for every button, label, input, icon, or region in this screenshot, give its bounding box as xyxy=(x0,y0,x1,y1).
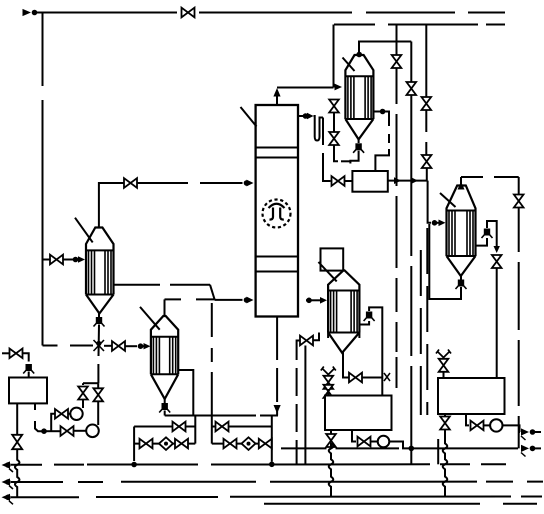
P3 discharge to product arrow xyxy=(389,442,518,449)
trap station 2 steam trap xyxy=(242,437,256,450)
junction dot station 1 on header A xyxy=(131,462,137,468)
evaporator EA bottom cone xyxy=(86,295,114,314)
transfer line tee to column inlet xyxy=(215,299,243,301)
evaporator E1 top tube sheet xyxy=(345,75,373,77)
mixing cross dot at EA bottoms xyxy=(96,341,101,346)
product line tail lower xyxy=(534,447,541,449)
P2 discharge riser lower xyxy=(97,402,99,426)
slash mark on evaporator E2 xyxy=(318,262,336,281)
valve V2 on P2 discharge xyxy=(93,388,103,401)
E2 right side loop with control valve xyxy=(359,321,369,325)
E2 left drain stub xyxy=(313,333,319,341)
cross ticks at EA bottoms junction xyxy=(94,340,105,351)
TM drain line to pump P3 xyxy=(371,441,378,443)
column tray line 1 xyxy=(256,147,298,149)
column bottoms pipe xyxy=(276,317,278,403)
valve on heater M2 feed xyxy=(332,176,345,186)
pump P2 xyxy=(86,425,99,438)
evaporator E3 bottom tube sheet xyxy=(447,255,476,257)
tick mark header A xyxy=(9,469,13,473)
suction manifold line xyxy=(46,430,61,432)
arrow into column at y183 xyxy=(247,180,254,187)
trap station 2 outlet valve xyxy=(259,439,272,449)
pump P4 xyxy=(490,419,502,431)
valve V396 xyxy=(392,55,402,68)
second arrowhead on M2 outlet xyxy=(411,177,418,184)
column symbol glyph arch xyxy=(269,204,285,208)
slash mark on column top xyxy=(241,107,257,127)
TR feed drop to tank xyxy=(496,269,498,379)
trap station 2 left riser xyxy=(211,303,213,444)
E2 drain dashed drop xyxy=(296,344,298,464)
bottom header C xyxy=(11,496,542,499)
column side outlet dot xyxy=(303,113,309,119)
valve on x519 line xyxy=(514,195,524,208)
junction dot product line upper xyxy=(530,429,536,435)
tank TL xyxy=(9,378,47,404)
heater M2 body xyxy=(352,171,387,192)
bottom header C left arrow xyxy=(2,494,11,501)
E2 bottoms line xyxy=(342,353,349,378)
trap station 1 bypass valve xyxy=(173,422,186,432)
E3 overhead corner down at x519 xyxy=(518,177,520,195)
overhead riser to vapour header xyxy=(333,25,335,88)
E1 right side loop xyxy=(373,112,389,172)
valve on EA vapour line xyxy=(124,178,137,188)
E1 bottoms control valve xyxy=(355,143,361,150)
EB bottoms control valve xyxy=(162,403,168,410)
steam header line top xyxy=(35,12,505,14)
pump P3 xyxy=(378,436,390,448)
tick mark header B xyxy=(9,486,13,490)
column symbol glyph right leg xyxy=(280,208,284,220)
column shell xyxy=(256,105,298,317)
evaporator EB shell xyxy=(151,316,178,374)
TM inlet valve upper xyxy=(324,376,334,389)
evaporator E3 shell xyxy=(447,186,476,257)
product line left dashed extension xyxy=(281,447,399,449)
TR drain stub xyxy=(466,414,469,425)
E2 lower flange xyxy=(328,333,359,339)
trap station 1 steam trap xyxy=(159,437,173,450)
reflux valve chain lower valve xyxy=(329,132,339,145)
TL feed elbow xyxy=(23,353,29,361)
junction dot before column inlet y300 xyxy=(244,297,250,303)
evaporator E1 tubes xyxy=(348,76,371,119)
valve on TM left drain xyxy=(326,434,336,447)
valve on TR feed xyxy=(492,255,502,268)
E3 bottoms control valve xyxy=(458,280,464,287)
evaporator EB tubes xyxy=(153,337,175,375)
riser x396 long drop xyxy=(396,69,398,389)
junction dot station 2 on header A xyxy=(269,462,275,468)
P1 discharge riser lower xyxy=(82,400,84,408)
tick mark product line lower xyxy=(521,453,526,457)
product arrow right upper xyxy=(521,428,529,435)
trap station 1 left edge xyxy=(133,427,135,462)
tank TL feed line xyxy=(2,352,10,354)
junction dot header B xyxy=(5,479,11,485)
evaporator EB top tube sheet xyxy=(151,336,178,338)
left main downcomer from header xyxy=(42,13,44,346)
pump P1 discharge riser xyxy=(82,383,84,385)
column side outlet arrow xyxy=(307,113,314,119)
E2 bottoms to tank TM junction xyxy=(362,377,382,379)
trap station 1 bypass rail xyxy=(134,426,195,428)
Y-actuator control valve on tank TM inlet xyxy=(321,367,336,375)
tick mark header C xyxy=(9,501,13,505)
EA vapour line to column xyxy=(137,182,243,184)
trap station 2 bypass valve xyxy=(216,422,229,432)
control valve blob on TL feed xyxy=(26,364,32,371)
riser x411 lower drop xyxy=(410,181,412,465)
feed line into evaporator EA xyxy=(44,259,74,261)
trap station 1 inlet valve xyxy=(140,439,153,449)
EB right side outlet down xyxy=(178,370,193,416)
bottom header A left arrow xyxy=(2,461,11,468)
dashed drop x421 xyxy=(420,250,422,415)
junction dot on E2 feed xyxy=(306,298,312,304)
valve on steam header xyxy=(182,8,195,18)
junction dot product line lower xyxy=(530,446,536,452)
junction dot on suction manifold xyxy=(41,428,47,434)
column symbol glyph left leg xyxy=(270,208,274,220)
evaporator E3 top tube sheet xyxy=(447,210,476,212)
valve on EA feed line xyxy=(50,255,63,265)
evaporator E1 bottom tube sheet xyxy=(345,118,373,120)
product line tail upper xyxy=(534,431,541,433)
column overhead line to risers xyxy=(277,87,334,89)
junction dot on EA feed xyxy=(73,257,79,263)
trap station 2 bottom rail xyxy=(212,443,272,445)
TR drain line to pump P4 xyxy=(484,424,491,426)
barometric seal U-tube xyxy=(314,116,324,141)
arrow into evaporator E2 xyxy=(320,297,327,304)
evaporator E1 bottom cone xyxy=(345,119,373,139)
TL drain hop line to bottom header xyxy=(15,449,20,497)
bottom header B xyxy=(11,481,543,483)
arrow down on column bottoms xyxy=(274,405,281,414)
E1 right side outlet dot xyxy=(380,109,386,115)
valve on TM drain xyxy=(358,437,371,447)
TM inlet valve lower xyxy=(324,385,334,398)
valve V1 on P1 discharge xyxy=(78,387,88,400)
TR left drain xyxy=(444,414,446,417)
pump P2 discharge riser xyxy=(97,383,99,388)
condensate collection line y415 xyxy=(165,415,278,417)
slash mark on evaporator E1 xyxy=(343,58,355,72)
seal downcomer to heater feed xyxy=(323,118,331,182)
vapour header line second xyxy=(334,24,505,26)
evaporator E1 shell xyxy=(345,55,373,119)
trap station 2 bypass rail xyxy=(212,426,272,428)
junction dot before column inlet xyxy=(244,180,250,186)
evaporator E2 shell xyxy=(328,270,359,332)
arrowhead on M2 outlet xyxy=(394,177,401,184)
inlet arrow into steam header xyxy=(23,9,32,16)
slash mark on evaporator E3 xyxy=(440,193,456,207)
EA vapour riser to column feed line xyxy=(99,183,124,227)
valve V427 upper xyxy=(422,97,432,110)
valve on P2 suction xyxy=(61,426,74,436)
evaporator EA bottom tube sheet xyxy=(86,294,114,296)
bottoms transfer line toward evaporator EB xyxy=(104,345,112,347)
P1 suction line xyxy=(68,413,70,415)
E1 bottoms elbow xyxy=(350,151,358,164)
evaporator E3 bottom cone xyxy=(447,256,476,276)
EA vapour outlet right to tee xyxy=(114,284,211,286)
TM left drain hop line xyxy=(329,443,334,496)
jog down to transfer tee xyxy=(210,285,215,300)
dot at E1 apex xyxy=(356,52,362,58)
P2 suction line xyxy=(74,430,87,432)
arrow into evaporator EA xyxy=(78,256,85,262)
column tray line 3 xyxy=(256,256,298,258)
Y-actuator control valve on TR inlet xyxy=(436,350,451,358)
x519 dashed drop to product line xyxy=(518,208,520,448)
tick mark product line upper xyxy=(521,436,526,440)
valve on E2 bottoms xyxy=(349,373,362,383)
E1 top line drop at x411 xyxy=(410,42,412,82)
tank TL outlet stub xyxy=(35,404,42,431)
column symbol circle xyxy=(263,200,291,228)
E1 vapour riser and top line xyxy=(359,42,411,55)
bottom header A xyxy=(11,463,506,466)
dashed drop x427 lower xyxy=(426,228,428,415)
TM drain stub xyxy=(352,430,356,442)
evaporator EB bottom cone xyxy=(151,374,178,399)
heater M2 feed stub xyxy=(345,180,353,182)
TL feed stub into tank xyxy=(28,372,30,378)
junction dot x411 on product line xyxy=(409,446,415,452)
evaporator E2 bottom cone xyxy=(328,333,359,353)
vapour header drop at x426 xyxy=(425,25,427,97)
arrow up at E3 apex xyxy=(458,182,465,190)
junction dot header C xyxy=(5,495,11,501)
column tray line 4 xyxy=(256,271,298,273)
evaporator E2 bottom tube sheet xyxy=(328,332,359,334)
evaporator E3 tubes xyxy=(449,211,473,257)
TM inlet drop xyxy=(381,378,383,396)
slash mark on evaporator EB xyxy=(140,307,160,330)
TR feed dashed line xyxy=(496,230,498,247)
trap station 1 riser xyxy=(194,416,196,444)
arrow into evaporator EB xyxy=(144,343,151,349)
trap station 2 inlet valve xyxy=(224,439,237,449)
trap station 2 right edge xyxy=(271,416,273,462)
trap station 1 outlet valve xyxy=(175,439,188,449)
bottom header B left arrow xyxy=(2,478,11,485)
M2 outlet elbow down to E3 feed xyxy=(428,181,431,223)
evaporator EA top tube sheet xyxy=(86,249,114,251)
P4 discharge to product arrow upper xyxy=(503,425,521,432)
junction dot on E3 feed xyxy=(432,220,438,226)
heater M2 outlet line xyxy=(388,180,428,182)
evaporator EA shell xyxy=(86,228,114,295)
column tray line 2 xyxy=(256,157,298,159)
valve V411 xyxy=(407,82,417,95)
valve on TL feed xyxy=(10,349,23,359)
vapour header drop to valve V396 xyxy=(396,25,398,55)
arrow into evaporator E3 xyxy=(439,220,446,227)
evaporator E2 tubes xyxy=(331,291,358,333)
evaporator E2 top tube sheet xyxy=(328,290,359,292)
junction dot on EB feed xyxy=(138,343,144,349)
EB bottoms stub to condensate line xyxy=(164,411,166,416)
arrow into column at y300 xyxy=(247,297,254,304)
E2 drain second drop solid xyxy=(304,346,306,465)
arrow down on tank TR feed xyxy=(494,246,500,253)
EA bottoms line with control valve xyxy=(96,317,102,324)
product arrow right lower xyxy=(521,445,529,452)
riser junction above pumps xyxy=(83,382,98,384)
tank TR xyxy=(438,378,505,414)
E3 right side loop xyxy=(476,238,488,246)
EB vapour riser xyxy=(164,299,166,316)
slash mark on evaporator EA xyxy=(75,218,93,243)
E3 bottoms recirculation loop xyxy=(429,224,461,299)
reflux chain dashed link xyxy=(341,160,350,162)
TL drain line xyxy=(16,403,18,435)
valve on P1 suction xyxy=(55,409,68,419)
reflux chain pipe xyxy=(333,113,335,132)
bottom header D xyxy=(264,503,537,505)
evaporator E2 vapour head box xyxy=(321,248,344,270)
suction tee vertical xyxy=(50,427,52,431)
E3 overhead line xyxy=(461,176,519,178)
TR bottom corner connector xyxy=(437,439,439,464)
arrowhead on overhead line end xyxy=(335,84,343,91)
tank TM xyxy=(325,396,392,431)
valve on TL drain xyxy=(12,435,22,449)
x426 riser middle xyxy=(425,111,427,155)
E2 drain elbow to drop xyxy=(297,341,300,345)
E3 side loop control valve xyxy=(484,229,490,236)
evaporator EB bottom tube sheet xyxy=(151,373,178,375)
pump P1 xyxy=(70,408,82,420)
junction dot on steam header xyxy=(32,10,38,16)
junction ticks at TM inlet xyxy=(384,373,390,381)
riser x411 to M2 outlet junction xyxy=(410,96,412,181)
valve on TR left drain xyxy=(440,417,450,430)
reflux chain pipe lower xyxy=(334,146,338,162)
junction dot header A xyxy=(5,462,11,468)
TR inlet valve xyxy=(439,359,449,372)
evaporator EA tubes xyxy=(89,250,112,294)
valve on E2 drain xyxy=(300,336,313,346)
P1 suction elbow from tee xyxy=(51,414,55,427)
EB feed line segment xyxy=(125,345,137,347)
valve on TR drain xyxy=(471,421,484,431)
EA bottoms pipe down to mixing cross xyxy=(97,325,100,384)
reflux valve chain upper valve xyxy=(329,100,339,113)
transfer line to evaporator EB riser xyxy=(165,298,215,300)
x427 riser to M2 outlet corner xyxy=(426,169,428,181)
TM left drain xyxy=(330,430,332,434)
valve V427 lower xyxy=(422,155,432,168)
valve on EB feed line xyxy=(112,341,125,351)
left downcomer elbow to evaporator EA bottoms line xyxy=(43,345,94,347)
trap station 1 bottom rail xyxy=(134,443,195,445)
column overhead arrow up xyxy=(273,88,280,97)
TR left drain hop line xyxy=(443,430,448,497)
